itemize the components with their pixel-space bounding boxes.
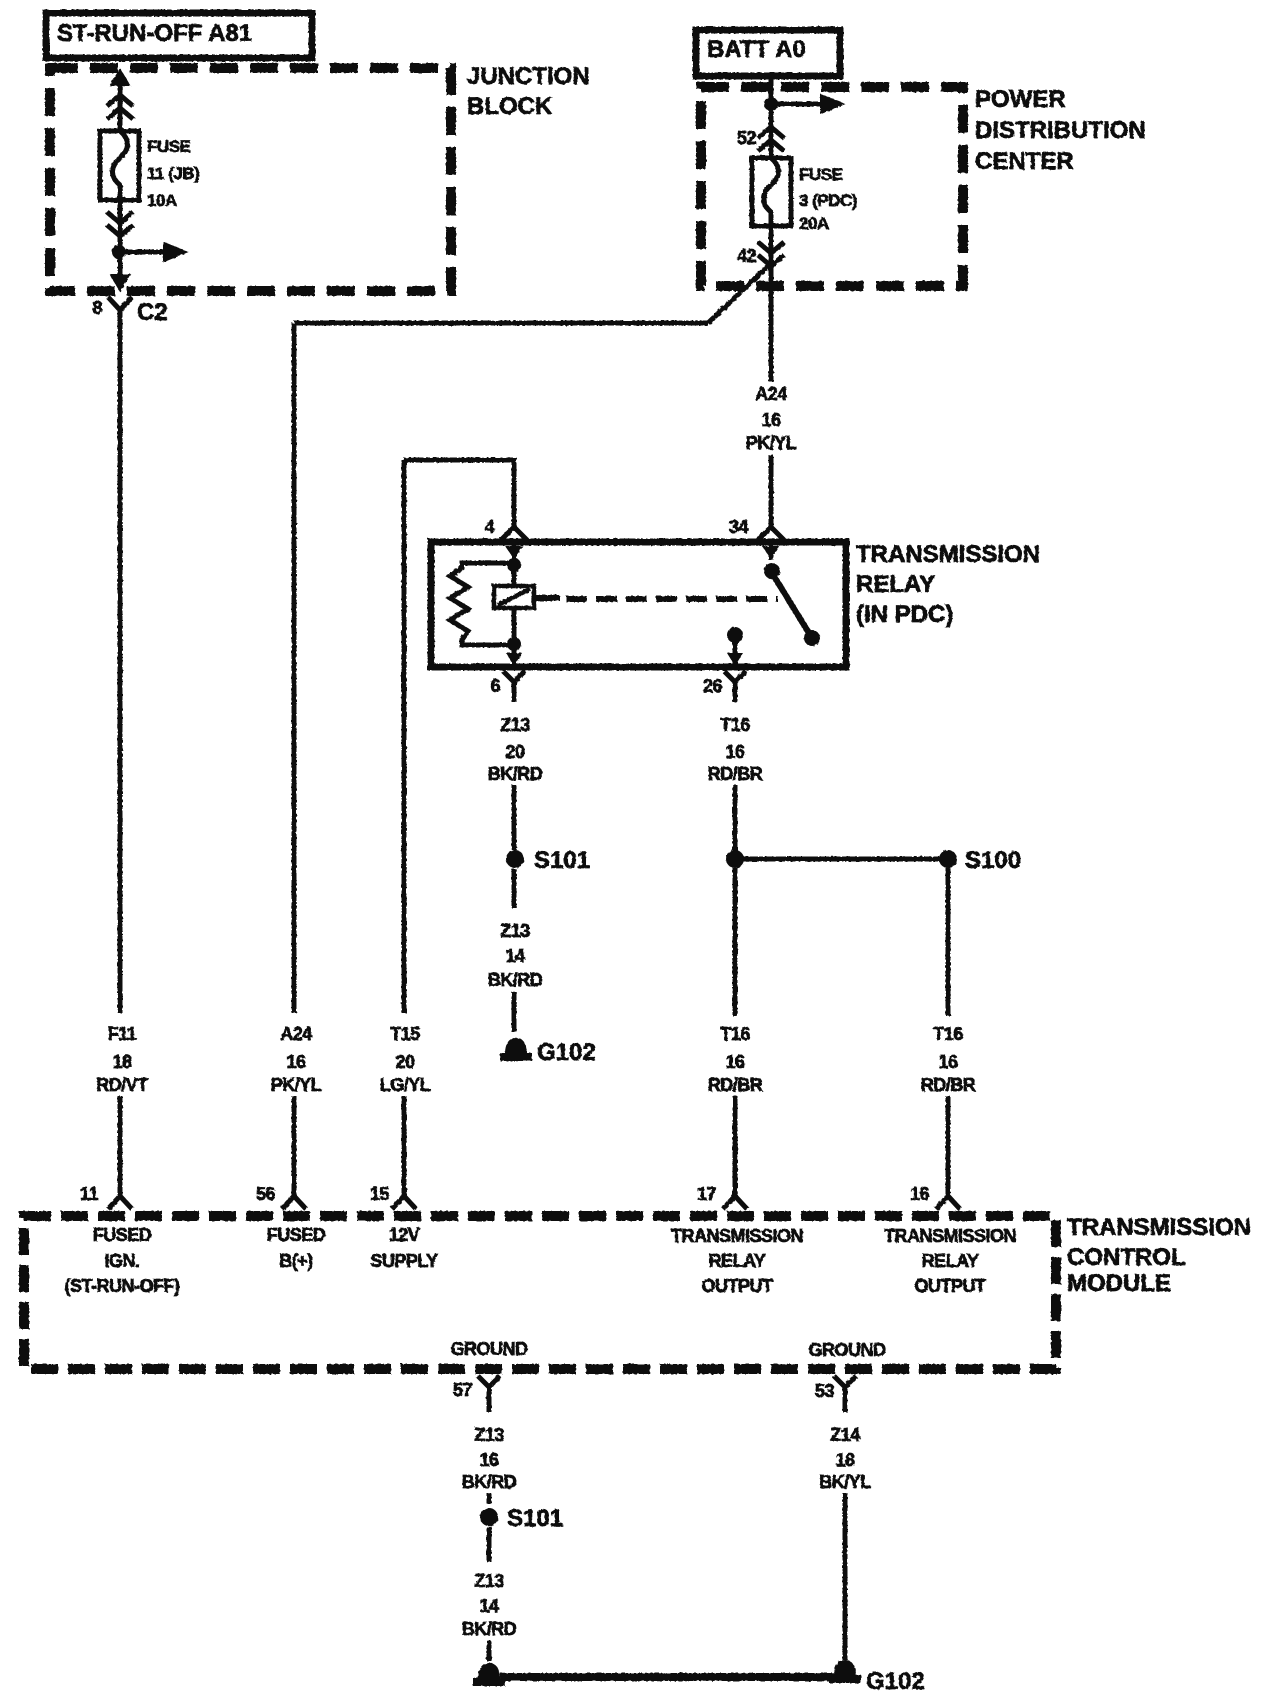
svg-text:DISTRIBUTION: DISTRIBUTION: [975, 117, 1146, 144]
svg-text:16: 16: [910, 1184, 930, 1204]
wire to TCM pin 15: [402, 1096, 407, 1196]
connector C2 pin 8: [92, 297, 167, 332]
pin 56 connector split: [282, 1196, 306, 1209]
wire to TCM pin 56: [292, 1096, 297, 1196]
arrow down at junction block bottom: [111, 275, 129, 290]
pin 15 connector split: [392, 1196, 416, 1209]
svg-text:FUSED: FUSED: [93, 1225, 152, 1245]
svg-text:(IN PDC): (IN PDC): [856, 601, 953, 628]
svg-text:16: 16: [938, 1052, 958, 1072]
svg-text:ST-RUN-OFF A81: ST-RUN-OFF A81: [57, 20, 252, 47]
svg-text:52: 52: [737, 128, 757, 148]
wire Z13 14 BK/RD (bottom): [487, 1527, 492, 1562]
svg-text:G102: G102: [866, 1668, 925, 1695]
svg-text:57: 57: [453, 1380, 473, 1400]
svg-text:TRANSMISSION: TRANSMISSION: [1067, 1214, 1251, 1241]
svg-text:B(+): B(+): [279, 1251, 313, 1271]
svg-text:A24: A24: [280, 1024, 312, 1044]
svg-text:4: 4: [484, 517, 494, 537]
svg-text:RD/BR: RD/BR: [921, 1075, 976, 1095]
arrow up at junction block top: [111, 70, 129, 85]
coil to bottom: [512, 608, 517, 667]
svg-text:(ST-RUN-OFF): (ST-RUN-OFF): [65, 1276, 180, 1296]
svg-text:BK/RD: BK/RD: [462, 1619, 517, 1639]
svg-text:G102: G102: [537, 1039, 596, 1066]
svg-text:Z13: Z13: [474, 1425, 504, 1445]
svg-text:Z13: Z13: [474, 1571, 504, 1591]
svg-text:53: 53: [815, 1381, 835, 1401]
connector chevrons (double, down): [107, 212, 133, 236]
svg-text:GROUND: GROUND: [809, 1340, 886, 1360]
svg-text:RD/VT: RD/VT: [96, 1075, 148, 1095]
junction dot with branch arrow: [764, 97, 778, 111]
splice S101 (bottom): [480, 1508, 498, 1526]
wire T16 16 RD/BR to TCM pin 17: [733, 868, 738, 1016]
wire A24 16 PK/YL left drop: [292, 323, 297, 1013]
relay coil element box: [494, 586, 534, 608]
relay switch arm: [769, 542, 774, 560]
pin 16 connector split: [936, 1196, 960, 1209]
svg-text:TRANSMISSION: TRANSMISSION: [671, 1226, 803, 1246]
svg-text:BK/RD: BK/RD: [462, 1472, 517, 1492]
svg-text:F11: F11: [108, 1024, 137, 1044]
svg-text:C2: C2: [137, 299, 168, 326]
svg-text:JUNCTION: JUNCTION: [467, 63, 590, 90]
junction dot with branch arrow: [112, 245, 126, 259]
svg-text:PK/YL: PK/YL: [271, 1075, 322, 1095]
svg-text:15: 15: [370, 1184, 390, 1204]
ground G102 (bottom right): [829, 1660, 925, 1695]
svg-text:Z13: Z13: [500, 715, 530, 735]
svg-text:20: 20: [505, 742, 525, 762]
wire Z13 14 BK/RD: [512, 869, 517, 908]
svg-text:POWER: POWER: [975, 86, 1066, 113]
node ST-RUN-OFF A81 feed box: [46, 13, 312, 58]
wire from BATT A0 into PDC: [769, 76, 774, 158]
svg-text:18: 18: [112, 1052, 132, 1072]
svg-text:RD/BR: RD/BR: [708, 764, 763, 784]
wire below fuse: [118, 200, 123, 288]
svg-text:CENTER: CENTER: [975, 148, 1074, 175]
svg-text:SUPPLY: SUPPLY: [370, 1251, 438, 1271]
wire from A81 box into junction block: [118, 84, 123, 130]
svg-text:BK/RD: BK/RD: [488, 764, 543, 784]
svg-text:TRANSMISSION: TRANSMISSION: [856, 541, 1040, 568]
wire F11 18 RD/VT: [118, 330, 123, 1013]
svg-text:RELAY: RELAY: [856, 571, 935, 598]
svg-text:14: 14: [505, 946, 525, 966]
splice junction: [726, 850, 744, 868]
transmission control module (dashed box): [24, 1216, 1056, 1369]
svg-text:14: 14: [479, 1596, 499, 1616]
node BATT A0 feed box: [696, 30, 840, 76]
svg-text:FUSED: FUSED: [267, 1225, 326, 1245]
svg-text:CONTROL: CONTROL: [1067, 1244, 1186, 1271]
wire to TCM pin 11: [118, 1096, 123, 1196]
svg-text:S101: S101: [507, 1505, 563, 1532]
splice S101: [506, 850, 524, 868]
svg-text:3 (PDC): 3 (PDC): [799, 191, 857, 210]
svg-text:6: 6: [490, 676, 500, 696]
svg-text:OUTPUT: OUTPUT: [915, 1276, 987, 1296]
svg-text:20: 20: [395, 1052, 415, 1072]
svg-text:A24: A24: [755, 384, 787, 404]
svg-text:S100: S100: [965, 847, 1021, 874]
svg-text:BATT A0: BATT A0: [707, 36, 806, 63]
svg-text:PK/YL: PK/YL: [746, 433, 797, 453]
svg-text:34: 34: [729, 517, 749, 537]
ground G102 (mid): [500, 1038, 596, 1066]
transmission relay box: [431, 542, 846, 667]
svg-text:RD/BR: RD/BR: [708, 1075, 763, 1095]
svg-text:FUSE: FUSE: [147, 137, 191, 156]
svg-text:FUSE: FUSE: [799, 165, 843, 184]
svg-text:T15: T15: [390, 1024, 420, 1044]
svg-text:56: 56: [256, 1184, 276, 1204]
ground bus wire: [500, 1673, 834, 1681]
connector chevrons (double) below arrow: [107, 95, 133, 119]
junction block (dashed box): [50, 68, 451, 291]
wire T16 16 RD/BR to TCM pin 16: [946, 868, 951, 1016]
fuse 3 (PDC) 20A: [752, 158, 857, 233]
relay contact dashed actuator line: [534, 595, 560, 601]
svg-text:26: 26: [703, 676, 723, 696]
svg-text:Z14: Z14: [830, 1425, 860, 1445]
svg-text:LG/YL: LG/YL: [380, 1075, 431, 1095]
svg-text:RELAY: RELAY: [922, 1251, 979, 1271]
svg-text:Z13: Z13: [500, 921, 530, 941]
wire jog from relay pin 4 to 12V supply drop: [404, 460, 514, 1013]
pin 17 connector split: [723, 1196, 747, 1209]
svg-text:20A: 20A: [799, 214, 829, 233]
power distribution center (dashed box): [701, 87, 963, 286]
svg-text:42: 42: [737, 246, 757, 266]
relay coil circuit: [512, 542, 517, 586]
wire to splice S100: [735, 857, 948, 862]
fuse 11 (JB) 10A: [100, 131, 199, 210]
svg-text:11 (JB): 11 (JB): [147, 164, 199, 183]
coil resistor zigzag: [450, 563, 514, 645]
ground G102 (bottom left): [473, 1663, 505, 1686]
svg-text:12V: 12V: [389, 1225, 420, 1245]
relay pin 26 stem: [727, 627, 743, 643]
wire A24 horizontal run: [294, 321, 708, 326]
svg-text:10A: 10A: [147, 191, 177, 210]
wire below fuse / pin 42 chevrons: [769, 226, 774, 382]
wire branch diagonal from pin 42 to A24 run: [708, 266, 768, 323]
svg-text:16: 16: [725, 742, 745, 762]
svg-text:BK/YL: BK/YL: [819, 1472, 871, 1492]
svg-text:17: 17: [697, 1184, 717, 1204]
svg-text:16: 16: [479, 1450, 499, 1470]
svg-text:TRANSMISSION: TRANSMISSION: [884, 1226, 1016, 1246]
splice S100: [939, 850, 957, 868]
svg-text:BK/RD: BK/RD: [488, 970, 543, 990]
svg-text:MODULE: MODULE: [1067, 1270, 1171, 1297]
svg-text:18: 18: [835, 1450, 855, 1470]
pin 11 connector split: [108, 1196, 132, 1209]
svg-text:T16: T16: [720, 715, 750, 735]
svg-text:RELAY: RELAY: [709, 1251, 766, 1271]
svg-text:T16: T16: [933, 1024, 963, 1044]
svg-text:S101: S101: [534, 847, 590, 874]
svg-text:11: 11: [80, 1184, 99, 1204]
svg-text:GROUND: GROUND: [451, 1339, 528, 1359]
svg-text:16: 16: [286, 1052, 306, 1072]
svg-text:OUTPUT: OUTPUT: [702, 1276, 774, 1296]
svg-text:IGN.: IGN.: [104, 1251, 139, 1271]
svg-text:T16: T16: [720, 1024, 750, 1044]
svg-text:16: 16: [725, 1052, 745, 1072]
svg-text:BLOCK: BLOCK: [467, 93, 553, 120]
svg-text:8: 8: [92, 298, 102, 318]
svg-text:16: 16: [761, 410, 781, 430]
